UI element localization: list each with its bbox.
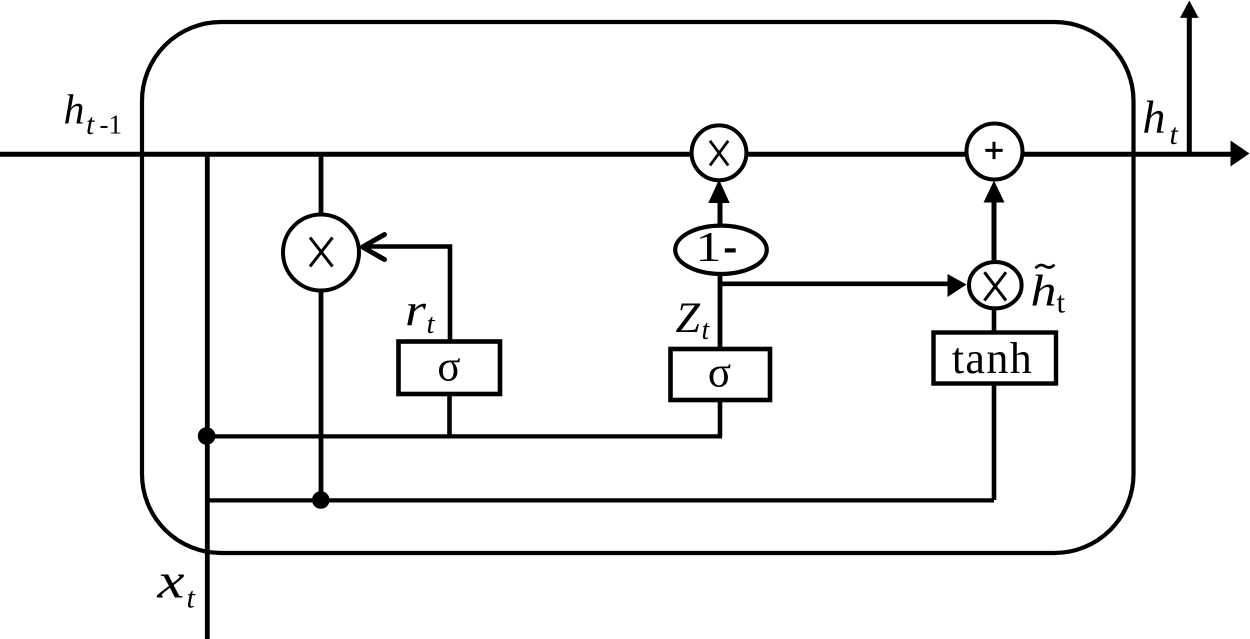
svg-text:tanh: tanh bbox=[952, 334, 1033, 383]
svg-text:h: h bbox=[1031, 267, 1057, 316]
svg-text:h: h bbox=[64, 88, 85, 134]
svg-text:t: t bbox=[86, 108, 95, 141]
svg-text:1: 1 bbox=[696, 225, 722, 271]
svg-text:t: t bbox=[1057, 285, 1066, 320]
svg-text:σ: σ bbox=[708, 350, 731, 397]
svg-text:Z: Z bbox=[676, 295, 702, 342]
svg-text:h: h bbox=[1143, 92, 1166, 144]
svg-text:t: t bbox=[1170, 118, 1179, 151]
svg-text:x: x bbox=[156, 553, 184, 609]
svg-text:σ: σ bbox=[437, 344, 460, 391]
svg-text:t: t bbox=[427, 308, 436, 340]
svg-text:t: t bbox=[187, 582, 196, 615]
svg-text:-1: -1 bbox=[100, 110, 123, 140]
svg-text:t: t bbox=[702, 315, 711, 346]
svg-text:r: r bbox=[405, 284, 427, 335]
